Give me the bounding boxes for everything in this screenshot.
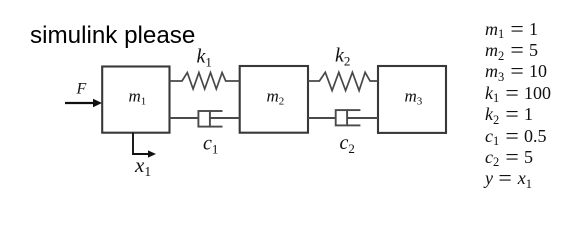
spring k1: [170, 73, 240, 89]
svg-text:k1: k1: [197, 46, 212, 70]
svg-text:F: F: [76, 81, 87, 98]
force arrow F: [65, 99, 102, 107]
displacement x1 indicator: [133, 133, 156, 158]
svg-text:m2: m2: [267, 86, 285, 107]
svg-text:k2: k2: [335, 45, 350, 69]
title text: [30, 24, 195, 48]
svg-text:m1: m1: [129, 86, 147, 107]
damper c2: [308, 110, 378, 125]
svg-text:m3: m3: [405, 86, 423, 107]
svg-text:c2: c2: [340, 132, 355, 156]
svg-text:c1: c1: [203, 133, 218, 157]
damper c1: [170, 111, 240, 127]
mass m1 box: [102, 67, 169, 133]
parameters list: [485, 19, 551, 190]
mass m2 box: [240, 66, 308, 133]
spring k2: [308, 72, 378, 90]
mass m3 box: [378, 66, 446, 133]
